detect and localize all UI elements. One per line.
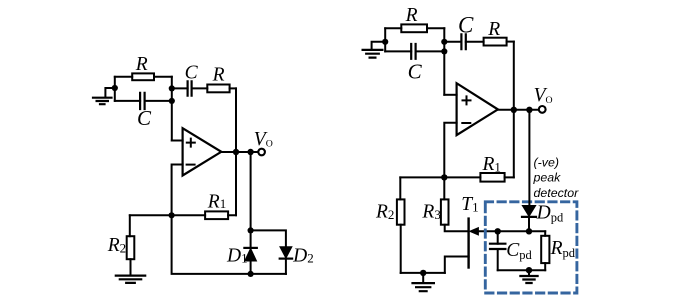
wire + input stub (left op-amp) bbox=[172, 140, 183, 142]
node (diode bottom rail, left) bbox=[248, 271, 254, 277]
resistor R3 (right circuit) bbox=[441, 177, 467, 231]
node (C branch tap, left) bbox=[169, 98, 175, 104]
wire feedback vertical from series R down through output node to R1 (right) bbox=[513, 42, 515, 178]
terminal Vo (left, open circle) bbox=[258, 149, 265, 156]
wire output down to diode top rail (left) bbox=[250, 152, 252, 230]
svg-text:R: R bbox=[405, 5, 418, 26]
wire feedback vertical from series R down to output node and on to R1 bbox=[235, 88, 237, 215]
capacitor C (series branch, left circuit) bbox=[172, 81, 208, 95]
node (C branch tap, right) bbox=[441, 48, 447, 54]
svg-text:R: R bbox=[487, 19, 500, 40]
wire right vertical of parallel RC down to + input bbox=[171, 77, 173, 141]
node (peak detector tap on output, right) bbox=[526, 107, 532, 113]
wire output node down to Dpd bbox=[528, 110, 530, 206]
wire right vertical of parallel RC down to + input (right) bbox=[443, 28, 445, 95]
node (feedback/output junction, right) bbox=[511, 107, 517, 113]
resistor R2 (right circuit) bbox=[397, 177, 405, 273]
node (R1/R2/- input junction, left) bbox=[169, 212, 175, 218]
node (ground / RC tap, right) bbox=[382, 39, 388, 45]
wire bottom ground rail (right) bbox=[401, 272, 445, 274]
svg-text:R1: R1 bbox=[207, 192, 226, 213]
op-amp U2 (right circuit) bbox=[457, 83, 498, 135]
wire left vertical of parallel RC (right) bbox=[384, 28, 386, 51]
ground (source/R2, right circuit) bbox=[413, 273, 434, 291]
node (ground rail, right) bbox=[420, 270, 426, 276]
ground (left circuit, top-left) bbox=[93, 88, 115, 104]
svg-text:C: C bbox=[137, 106, 152, 130]
ground (right circuit, top-left) bbox=[363, 42, 386, 58]
wire left vertical of parallel RC bbox=[114, 77, 116, 101]
ground (below R2, left circuit) bbox=[116, 276, 145, 283]
capacitor C (parallel branch, left circuit) bbox=[115, 93, 172, 109]
node (feedback/output junction, left) bbox=[233, 149, 239, 155]
svg-text:(-ve): (-ve) bbox=[534, 155, 559, 169]
svg-text:R: R bbox=[135, 54, 148, 75]
peak detector dashed box bbox=[485, 202, 577, 293]
capacitor C (parallel branch, right circuit) bbox=[385, 44, 444, 59]
resistor R1 (right circuit) bbox=[480, 173, 504, 182]
diode Dpd bbox=[522, 206, 536, 232]
wire diode bottom rail right segment bbox=[251, 273, 286, 275]
node (peak detector ground tap) bbox=[526, 267, 532, 273]
node (ground / RC tap, left) bbox=[112, 85, 118, 91]
svg-text:Dpd: Dpd bbox=[536, 202, 564, 224]
node (Dpd cathode junction) bbox=[526, 228, 532, 234]
svg-text:T1: T1 bbox=[461, 194, 478, 215]
svg-text:VO: VO bbox=[254, 129, 273, 150]
resistor R (parallel branch, left circuit) bbox=[115, 73, 172, 80]
node (diode branch tap on output, left) bbox=[247, 149, 253, 155]
svg-text:D2: D2 bbox=[292, 245, 314, 266]
svg-text:R2: R2 bbox=[375, 202, 394, 223]
svg-text:VO: VO bbox=[534, 85, 553, 106]
svg-text:R1: R1 bbox=[482, 154, 501, 175]
svg-text:Cpd: Cpd bbox=[506, 240, 532, 262]
svg-text:C: C bbox=[458, 13, 474, 38]
diode D2 (left circuit) bbox=[280, 247, 292, 274]
wire op-amp output (right) bbox=[498, 109, 539, 111]
wire bottom rail of peak detector bbox=[498, 269, 546, 271]
resistor R (parallel branch, right circuit) bbox=[385, 24, 444, 32]
resistor Rpd bbox=[541, 231, 549, 270]
resistor R1 (left circuit) bbox=[205, 211, 228, 219]
svg-text:Rpd: Rpd bbox=[550, 238, 576, 260]
capacitor C (series branch, right circuit) bbox=[444, 34, 483, 49]
op-amp U1 (left circuit) bbox=[183, 128, 222, 175]
wire gate rail inside peak detector bbox=[498, 230, 546, 232]
node (R1/R2/R3/- input junction, right) bbox=[441, 174, 447, 180]
wire inverting junction rail (left) bbox=[130, 214, 236, 216]
svg-text:R3: R3 bbox=[421, 202, 440, 223]
svg-text:C: C bbox=[408, 59, 423, 83]
wire junction down to diode bottom rail (left) bbox=[172, 215, 251, 274]
resistor R2 (left circuit) bbox=[127, 215, 135, 274]
svg-text:peak: peak bbox=[533, 171, 562, 185]
wire inverting junction rail (right) bbox=[400, 176, 514, 178]
svg-text:detector: detector bbox=[534, 186, 580, 200]
node (series branch tap, left) bbox=[169, 85, 175, 91]
transistor T1 (JFET) bbox=[445, 219, 498, 273]
resistor R (series branch, left circuit) bbox=[207, 85, 236, 93]
capacitor Cpd bbox=[490, 231, 505, 270]
node (diode top rail, left) bbox=[248, 227, 254, 233]
wire op-amp output (left) bbox=[221, 151, 258, 153]
node (gate / Dpd junction) bbox=[495, 228, 501, 234]
svg-text:R2: R2 bbox=[107, 235, 126, 256]
terminal Vo (right, open circle) bbox=[539, 106, 546, 113]
ground (peak detector) bbox=[520, 270, 537, 283]
svg-text:C: C bbox=[185, 62, 199, 83]
wire - input stub and vertical down to junction (left op-amp) bbox=[172, 165, 183, 216]
wire diode top rail to D2 branch bbox=[251, 230, 286, 246]
wire - input stub and vertical down to junction (right op-amp) bbox=[444, 123, 456, 178]
svg-text:R: R bbox=[212, 64, 225, 85]
diode D1 (left circuit) bbox=[244, 230, 256, 274]
node (series branch tap, right) bbox=[441, 39, 447, 45]
resistor R (series branch, right circuit) bbox=[484, 38, 514, 46]
wire + input stub (right op-amp) bbox=[444, 94, 456, 96]
